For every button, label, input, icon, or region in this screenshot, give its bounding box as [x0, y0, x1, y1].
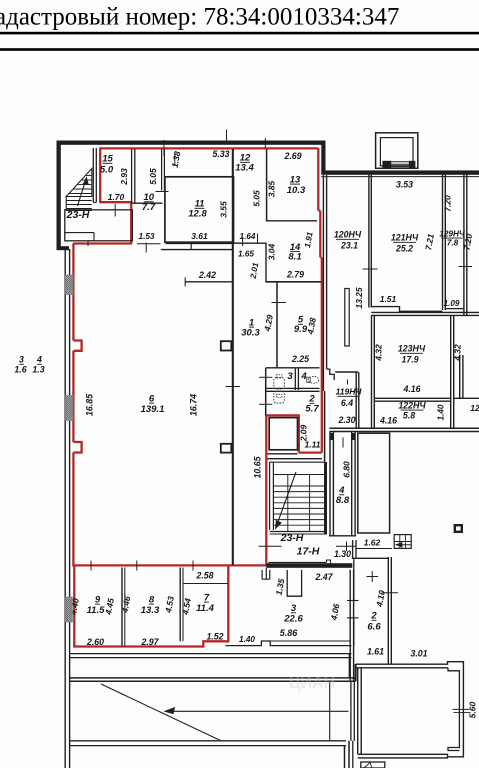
svg-text:10.3: 10.3: [287, 185, 306, 196]
svg-text:7.20: 7.20: [443, 195, 453, 212]
svg-text:5.86: 5.86: [280, 628, 299, 638]
svg-text:17.9: 17.9: [401, 354, 418, 364]
svg-text:3.61: 3.61: [191, 231, 208, 241]
svg-text:6.4: 6.4: [341, 398, 353, 408]
svg-text:5.0: 5.0: [100, 165, 114, 176]
svg-text:2.60: 2.60: [86, 637, 104, 647]
svg-text:129НЧ: 129НЧ: [439, 229, 465, 238]
svg-text:22.6: 22.6: [283, 614, 303, 625]
svg-text:4: 4: [300, 371, 307, 382]
svg-text:адастровый номер: 78:34:001033: адастровый номер: 78:34:0010334:347: [0, 4, 399, 31]
svg-text:3: 3: [287, 371, 293, 382]
svg-text:10.65: 10.65: [253, 456, 263, 478]
svg-text:2.42: 2.42: [198, 270, 216, 280]
svg-text:4.16: 4.16: [379, 415, 397, 425]
svg-text:7.7: 7.7: [142, 202, 156, 213]
svg-text:4.32: 4.32: [374, 344, 384, 362]
svg-text:2.58: 2.58: [195, 571, 213, 581]
svg-text:1.53: 1.53: [139, 232, 155, 241]
svg-text:4.32: 4.32: [453, 344, 463, 362]
svg-text:12.8: 12.8: [188, 209, 207, 220]
svg-text:16.85: 16.85: [85, 394, 95, 416]
svg-text:7.8: 7.8: [447, 239, 459, 248]
svg-text:25.2: 25.2: [395, 243, 413, 253]
svg-text:1.51: 1.51: [380, 294, 397, 304]
svg-text:5.33: 5.33: [212, 149, 229, 159]
svg-text:119НЧ: 119НЧ: [336, 387, 363, 397]
svg-text:2.97: 2.97: [140, 637, 159, 647]
svg-text:6.6: 6.6: [367, 622, 381, 633]
svg-text:8.1: 8.1: [288, 251, 301, 262]
svg-text:23-Н: 23-Н: [66, 209, 90, 221]
svg-text:13.25: 13.25: [354, 287, 364, 309]
svg-text:30.3: 30.3: [241, 328, 260, 339]
svg-text:1.70: 1.70: [108, 192, 125, 202]
svg-text:17-Н: 17-Н: [297, 545, 320, 557]
svg-text:1.62: 1.62: [364, 537, 381, 547]
svg-text:1.3: 1.3: [32, 365, 44, 375]
svg-text:1.61: 1.61: [367, 647, 384, 657]
svg-text:121НЧ: 121НЧ: [391, 233, 419, 243]
svg-text:120НЧ: 120НЧ: [334, 230, 362, 240]
svg-text:2.47: 2.47: [314, 572, 333, 582]
svg-text:5.60: 5.60: [468, 701, 478, 718]
svg-text:5.05: 5.05: [148, 168, 158, 185]
svg-text:13.3: 13.3: [141, 605, 160, 616]
svg-text:8.8: 8.8: [336, 495, 350, 506]
svg-text:1.65: 1.65: [238, 249, 254, 258]
svg-text:2.25: 2.25: [291, 354, 309, 364]
svg-text:1.40: 1.40: [239, 635, 255, 644]
svg-text:3.55: 3.55: [219, 201, 229, 218]
svg-text:23-Н: 23-Н: [280, 532, 304, 544]
svg-text:3.04: 3.04: [267, 243, 277, 260]
svg-text:1.40: 1.40: [437, 404, 446, 420]
svg-text:13.4: 13.4: [235, 163, 254, 174]
svg-text:2.79: 2.79: [286, 269, 304, 279]
svg-text:5.7: 5.7: [305, 403, 319, 414]
svg-text:11.4: 11.4: [196, 603, 215, 614]
svg-text:1.52: 1.52: [206, 631, 223, 641]
svg-text:3.53: 3.53: [396, 180, 413, 190]
svg-text:1.30: 1.30: [334, 549, 351, 559]
svg-text:6.80: 6.80: [342, 461, 352, 478]
svg-text:ЦИАН: ЦИАН: [289, 675, 335, 692]
svg-text:122НЧ: 122НЧ: [398, 400, 426, 410]
svg-text:3: 3: [19, 355, 24, 365]
svg-text:3.01: 3.01: [410, 649, 427, 659]
svg-text:1.64: 1.64: [240, 232, 256, 241]
svg-text:1.6: 1.6: [14, 365, 26, 375]
svg-text:3.85: 3.85: [267, 180, 277, 197]
svg-text:123НЧ: 123НЧ: [398, 344, 426, 354]
svg-text:2.30: 2.30: [337, 415, 355, 425]
svg-text:12: 12: [470, 403, 479, 413]
svg-text:139.1: 139.1: [141, 404, 165, 415]
svg-text:23.1: 23.1: [340, 240, 358, 250]
svg-text:5.05: 5.05: [252, 190, 262, 207]
svg-text:1.09: 1.09: [444, 299, 460, 308]
svg-text:16.74: 16.74: [189, 394, 199, 416]
svg-text:1.11: 1.11: [305, 439, 321, 449]
svg-text:2.69: 2.69: [283, 151, 301, 161]
svg-text:5.8: 5.8: [403, 411, 415, 421]
svg-text:2.93: 2.93: [119, 168, 129, 186]
svg-text:4.16: 4.16: [402, 384, 420, 394]
svg-text:4: 4: [36, 355, 42, 365]
